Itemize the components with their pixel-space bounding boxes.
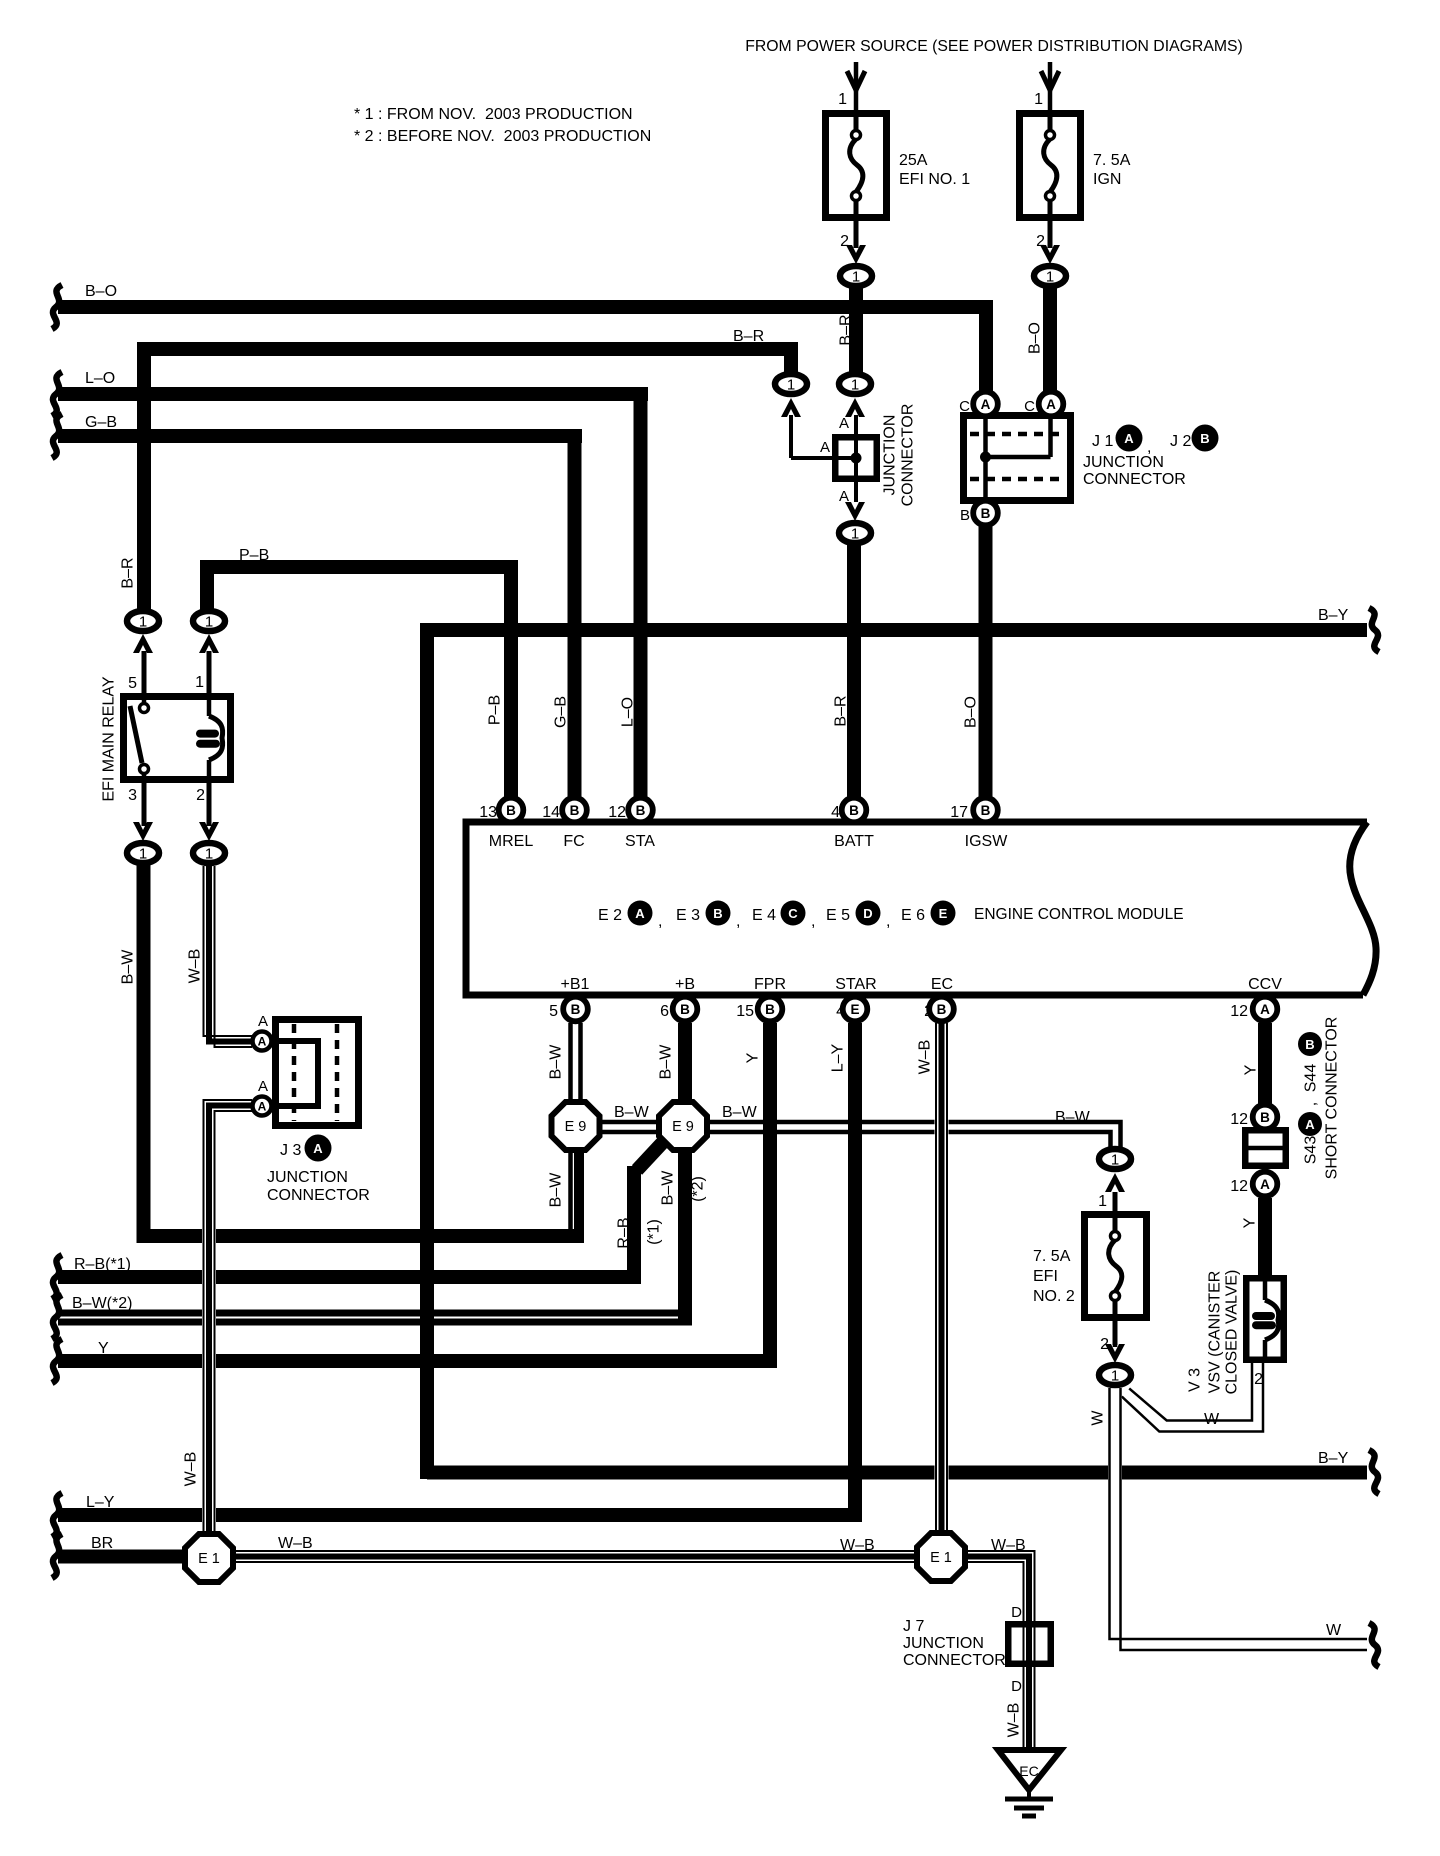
svg-text:D: D xyxy=(1011,1678,1022,1695)
svg-text:1: 1 xyxy=(851,377,859,394)
svg-text:CONNECTOR: CONNECTOR xyxy=(1083,471,1186,488)
fuse element EFI NO.1 xyxy=(854,113,859,131)
junction connector center dot xyxy=(851,453,862,464)
svg-text:R–B: R–B xyxy=(616,1217,633,1248)
svg-text:D: D xyxy=(1011,1604,1022,1621)
svg-text:1: 1 xyxy=(838,91,847,108)
fuse box 7.5A EFI NO.2 xyxy=(1085,1215,1147,1318)
svg-text:1: 1 xyxy=(852,269,860,286)
relay coil xyxy=(207,696,212,716)
svg-text:JUNCTION: JUNCTION xyxy=(882,415,899,496)
connector oval B-R junction xyxy=(775,374,807,394)
svg-text:B–W: B–W xyxy=(660,1170,677,1206)
svg-text:A: A xyxy=(635,906,645,921)
svg-text:Y: Y xyxy=(1243,1064,1260,1075)
svg-text:E 2: E 2 xyxy=(598,907,622,924)
svg-text:1: 1 xyxy=(1098,1193,1107,1210)
svg-text:J 1: J 1 xyxy=(1092,433,1113,450)
wire L-O bus to STA xyxy=(58,387,648,401)
squiggle B-W(*2) bus left end xyxy=(52,1295,62,1339)
junction connector J1/J2 internal wire vertical xyxy=(983,416,988,500)
squiggle B-O bus left end xyxy=(52,285,62,329)
pin circle B-B junction connector xyxy=(973,501,998,526)
svg-text:E 5: E 5 xyxy=(826,907,850,924)
junction connector J3 internal bus loop xyxy=(274,1041,318,1106)
svg-text:CLOSED VALVE): CLOSED VALVE) xyxy=(1224,1270,1241,1395)
wire B-W relay pin 3 to E9 no.1 xyxy=(137,864,151,1243)
pin circle IGSW 17-B xyxy=(973,798,998,823)
wire B-W below E9 no.1 (double line) xyxy=(568,1150,583,1232)
wire Y bus to FPR xyxy=(58,1354,777,1368)
svg-text:NO. 2: NO. 2 xyxy=(1033,1288,1075,1305)
svg-text:B–W: B–W xyxy=(722,1104,758,1121)
svg-text:CONNECTOR: CONNECTOR xyxy=(903,1652,1006,1669)
connector oval relay pin 1 xyxy=(193,611,225,631)
wire B-O from fuse IGN xyxy=(1043,288,1057,391)
wire relay pin 5 lead xyxy=(142,651,147,694)
svg-text:B: B xyxy=(981,506,991,521)
svg-text:D: D xyxy=(863,906,872,921)
svg-text:B–W: B–W xyxy=(614,1104,650,1121)
svg-text:JUNCTION: JUNCTION xyxy=(267,1169,348,1186)
svg-text:5: 5 xyxy=(549,1003,558,1020)
svg-text:B–W: B–W xyxy=(658,1044,675,1080)
svg-text:CONNECTOR: CONNECTOR xyxy=(900,404,917,507)
connector oval fuse EFI NO.1 pin 2 xyxy=(846,245,866,264)
svg-text:A: A xyxy=(1046,397,1056,412)
svg-text:,: , xyxy=(811,913,815,930)
squiggle L-O bus left end xyxy=(52,372,62,416)
junction E1 no.1 xyxy=(185,1534,233,1582)
svg-text:B: B xyxy=(960,507,970,524)
svg-text:B–W: B–W xyxy=(1055,1109,1091,1126)
junction E9 no.1 xyxy=(552,1102,600,1150)
svg-text:12: 12 xyxy=(1230,1003,1248,1020)
wire junction connector A through lead xyxy=(854,415,858,502)
svg-text:E: E xyxy=(850,1002,859,1017)
svg-text:A: A xyxy=(1260,1177,1270,1192)
wire B-Y upper bus xyxy=(427,623,1367,637)
svg-text:A: A xyxy=(258,1100,267,1114)
svg-text:W–B: W–B xyxy=(183,1452,200,1487)
svg-text:13: 13 xyxy=(479,804,497,821)
svg-text:V 3: V 3 xyxy=(1187,1368,1204,1392)
wire B-W from E9 no.2 to EFI NO.2 fuse (double line) xyxy=(708,1120,1118,1135)
svg-text:7. 5A: 7. 5A xyxy=(1093,152,1131,169)
svg-text:E 1: E 1 xyxy=(930,1550,952,1566)
svg-text:B–W: B–W xyxy=(548,1044,565,1080)
junction connector J1/J2 internal dot xyxy=(980,452,991,463)
svg-text:,: , xyxy=(1303,1102,1320,1106)
svg-text:,: , xyxy=(886,913,890,930)
svg-text:B–Y: B–Y xyxy=(1318,1450,1349,1467)
svg-text:EC: EC xyxy=(931,976,953,993)
svg-text:1: 1 xyxy=(205,846,213,863)
svg-text:B–Y: B–Y xyxy=(1318,607,1349,624)
svg-text:1: 1 xyxy=(195,674,204,691)
wire W from EFI NO.2 fuse down and right xyxy=(1115,1388,1367,1645)
wire Y short connector to VSV xyxy=(1258,1198,1272,1277)
relay switch contact xyxy=(142,696,147,704)
svg-text:FPR: FPR xyxy=(754,976,786,993)
svg-text:L–O: L–O xyxy=(620,697,637,727)
svg-text:E: E xyxy=(939,906,948,921)
svg-text:Y: Y xyxy=(745,1052,762,1063)
svg-text:W: W xyxy=(1090,1410,1107,1426)
junction E1 no.2 xyxy=(917,1533,965,1581)
fuse element EFI NO.2 xyxy=(1113,1192,1118,1232)
junction connector J1/J2 dashed line 2 xyxy=(970,477,1066,482)
svg-text:A: A xyxy=(820,439,830,456)
connector oval EFI NO.2 pin 1 xyxy=(1099,1149,1131,1169)
svg-text:SHORT CONNECTOR: SHORT CONNECTOR xyxy=(1324,1017,1341,1180)
svg-text:Y: Y xyxy=(1242,1217,1259,1228)
svg-text:S44: S44 xyxy=(1303,1064,1320,1093)
svg-text:A: A xyxy=(1260,1002,1270,1017)
svg-text:G–B: G–B xyxy=(85,414,117,431)
pin circle C-A junction connector right xyxy=(1039,392,1064,417)
junction connector J3 internal dashed line 1 xyxy=(292,1024,297,1121)
connector oval relay pin 2 xyxy=(199,822,219,841)
svg-text:2: 2 xyxy=(1036,233,1045,250)
pin circle 12-A short connector xyxy=(1253,1172,1278,1197)
svg-text:B: B xyxy=(981,803,991,818)
wire L-Y bus to STAR xyxy=(848,1023,862,1515)
svg-text:B–R: B–R xyxy=(838,314,855,345)
fuse box 25A EFI NO.1 xyxy=(826,114,887,218)
svg-text:7. 5A: 7. 5A xyxy=(1033,1248,1071,1265)
wire relay pin 3 lead xyxy=(142,783,147,826)
svg-text:STA: STA xyxy=(625,833,655,850)
svg-text:B: B xyxy=(849,803,859,818)
pin circle STAR 4-E xyxy=(843,997,868,1022)
squiggle B-Y upper right end xyxy=(1369,608,1379,652)
fuse element IGN xyxy=(1048,113,1053,131)
svg-text:B: B xyxy=(765,1002,775,1017)
svg-text:B: B xyxy=(636,803,646,818)
svg-text:E 6: E 6 xyxy=(901,907,925,924)
svg-text:A: A xyxy=(1124,431,1134,446)
svg-text:C: C xyxy=(788,906,798,921)
svg-text:1: 1 xyxy=(205,614,213,631)
svg-text:E 9: E 9 xyxy=(565,1119,587,1135)
svg-text:L–O: L–O xyxy=(85,370,115,387)
svg-text:EFI: EFI xyxy=(1033,1268,1058,1285)
wire W-B between E1 junctions xyxy=(233,1550,917,1564)
short connector box S43/S44 xyxy=(1245,1130,1286,1166)
svg-text:FC: FC xyxy=(563,833,584,850)
junction E9 no.2 xyxy=(659,1102,707,1150)
svg-text:25A: 25A xyxy=(899,152,928,169)
svg-text:A: A xyxy=(258,1035,267,1049)
power feed arrow to fuse IGN xyxy=(1048,62,1053,110)
svg-text:C: C xyxy=(1024,398,1035,415)
pin circle +B1 5-B xyxy=(563,997,588,1022)
svg-text:MREL: MREL xyxy=(489,833,534,850)
wire junction connector lead from B-R oval xyxy=(789,415,793,458)
svg-text:1: 1 xyxy=(851,526,859,543)
pin circle FC 14-B xyxy=(562,798,587,823)
svg-text:EFI NO. 1: EFI NO. 1 xyxy=(899,171,970,188)
svg-text:VSV (CANISTER: VSV (CANISTER xyxy=(1207,1271,1224,1394)
svg-text:+B1: +B1 xyxy=(561,976,590,993)
wire B-R horizontal to junction connector xyxy=(137,342,798,356)
wire relay pin 2 lead xyxy=(207,783,212,826)
wire B-W +B1 to E9 (double line) xyxy=(568,1023,583,1102)
wire R-B from E9 no.2 diagonal xyxy=(637,1141,664,1170)
pin circle STA 12-B xyxy=(628,798,653,823)
svg-text:B–W(*2): B–W(*2) xyxy=(72,1295,132,1312)
wire B-R down to EFI main relay xyxy=(137,343,151,610)
pin circle 12-B short connector xyxy=(1253,1105,1278,1130)
squiggle L-Y bus left end xyxy=(52,1493,62,1537)
svg-text:1: 1 xyxy=(787,377,795,394)
svg-text:W: W xyxy=(1326,1622,1342,1639)
svg-text:B–O: B–O xyxy=(85,283,117,300)
svg-text:IGSW: IGSW xyxy=(965,833,1009,850)
svg-text:6: 6 xyxy=(660,1003,669,1020)
svg-text:1: 1 xyxy=(1046,269,1054,286)
connector oval relay pin 3 xyxy=(133,822,153,841)
svg-text:4: 4 xyxy=(836,1003,845,1020)
svg-text:B–O: B–O xyxy=(1027,322,1044,354)
svg-text:2: 2 xyxy=(924,1003,933,1020)
wire B-R from fuse EFI NO.1 xyxy=(849,288,863,372)
svg-text:B: B xyxy=(1200,431,1209,446)
power feed arrow to fuse EFI NO.1 xyxy=(854,62,859,110)
svg-text:14: 14 xyxy=(542,804,560,821)
svg-text:12: 12 xyxy=(1230,1178,1248,1195)
EFI MAIN RELAY box xyxy=(124,697,231,780)
svg-text:1: 1 xyxy=(139,614,147,631)
svg-text:+B: +B xyxy=(675,976,695,993)
svg-text:1: 1 xyxy=(1111,1152,1119,1169)
svg-text:B–O: B–O xyxy=(963,696,980,728)
svg-text:A: A xyxy=(1305,1117,1315,1132)
wire relay pin 1 lead xyxy=(207,651,212,694)
junction connector J1/J2 internal wire branch xyxy=(1048,416,1053,457)
svg-text:JUNCTION: JUNCTION xyxy=(903,1635,984,1652)
svg-text:E 1: E 1 xyxy=(198,1551,220,1567)
svg-text:W–B: W–B xyxy=(991,1537,1026,1554)
svg-text:J 7: J 7 xyxy=(903,1618,924,1635)
junction connector J7 box xyxy=(1008,1624,1051,1664)
connector oval B-R to BATT xyxy=(845,502,865,521)
junction connector J1/J2 dashed line 1 xyxy=(970,432,1066,437)
svg-text:,: , xyxy=(736,913,740,930)
junction connector J3 box xyxy=(276,1020,359,1126)
svg-text:B–W: B–W xyxy=(548,1172,565,1208)
squiggle W right end xyxy=(1369,1623,1379,1667)
wire W-B from J3 to E1 ground junction xyxy=(209,1106,252,1535)
ground symbol EC xyxy=(998,1750,1061,1790)
svg-text:3: 3 xyxy=(128,787,137,804)
svg-text:STAR: STAR xyxy=(835,976,876,993)
svg-text:W–B: W–B xyxy=(840,1537,875,1554)
wire P-B MREL to relay xyxy=(504,560,518,797)
pin circle J3 A upper xyxy=(253,1032,272,1051)
svg-text:R–B(*1): R–B(*1) xyxy=(74,1256,131,1273)
pin circle BATT 4-B xyxy=(842,798,867,823)
wire B-W +B to E9 no.2 xyxy=(678,1023,692,1102)
svg-text:W: W xyxy=(1204,1411,1220,1428)
pin circle +B 6-B xyxy=(673,997,698,1022)
junction connector J1/J2 box xyxy=(964,416,1071,501)
svg-text:12: 12 xyxy=(1230,1111,1248,1128)
wire fuse IGN pin 2 to connector xyxy=(1048,221,1053,248)
pin circle J3 A lower xyxy=(253,1097,272,1116)
svg-text:B: B xyxy=(570,803,580,818)
squiggle R-B(*1) bus left end xyxy=(52,1255,62,1299)
svg-text:* 2 : BEFORE NOV. 2003 PRODUC: * 2 : BEFORE NOV. 2003 PRODUCTION xyxy=(354,128,651,145)
pin circle FPR 15-B xyxy=(758,997,783,1022)
wire EFI NO.2 pin 2 lead xyxy=(1113,1321,1118,1347)
wire fuse EFI NO.1 pin 2 to connector xyxy=(854,221,859,248)
squiggle BR bus left end xyxy=(52,1534,62,1578)
svg-text:B–R: B–R xyxy=(733,328,764,345)
svg-text:S43: S43 xyxy=(1303,1136,1320,1165)
connector oval relay pin 5 xyxy=(127,611,159,631)
squiggle G-B bus left end xyxy=(52,414,62,458)
connector oval fuse IGN pin 2 xyxy=(1040,245,1060,264)
svg-text:1: 1 xyxy=(1034,91,1043,108)
wire W-B relay pin 2 to J3 xyxy=(209,866,252,1042)
svg-text:IGN: IGN xyxy=(1093,171,1121,188)
svg-text:A: A xyxy=(258,1013,268,1030)
wire BR bus to E1 xyxy=(58,1550,190,1564)
svg-text:C: C xyxy=(959,398,970,415)
svg-text:W–B: W–B xyxy=(917,1040,934,1075)
fuse box 7.5A IGN xyxy=(1020,114,1081,218)
svg-text:P–B: P–B xyxy=(487,695,504,725)
squiggle Y bus left end xyxy=(52,1339,62,1383)
svg-text:J 3: J 3 xyxy=(280,1142,301,1159)
connector oval EFI NO.2 pin 2 xyxy=(1105,1344,1125,1363)
svg-text:W–B: W–B xyxy=(187,949,204,984)
svg-text:G–B: G–B xyxy=(553,696,570,728)
pin circle EC 2-B xyxy=(929,997,954,1022)
svg-text:B: B xyxy=(937,1002,947,1017)
svg-text:12: 12 xyxy=(608,804,626,821)
svg-text:15: 15 xyxy=(736,1003,754,1020)
svg-text:B: B xyxy=(713,906,722,921)
svg-text:(*2): (*2) xyxy=(690,1176,707,1202)
pin circle CCV 12-A xyxy=(1253,997,1278,1022)
svg-text:2: 2 xyxy=(1100,1336,1109,1353)
svg-text:CCV: CCV xyxy=(1248,976,1282,993)
svg-text:ENGINE CONTROL MODULE: ENGINE CONTROL MODULE xyxy=(974,906,1184,923)
svg-text:B: B xyxy=(571,1002,581,1017)
svg-text:4: 4 xyxy=(831,804,840,821)
svg-text:W–B: W–B xyxy=(1006,1703,1023,1738)
VSV V3 box xyxy=(1246,1278,1284,1360)
connector oval B-R to junction connector xyxy=(839,374,871,394)
svg-text:1: 1 xyxy=(1111,1368,1119,1385)
svg-text:E 9: E 9 xyxy=(672,1119,694,1135)
svg-text:5: 5 xyxy=(128,675,137,692)
svg-text:B: B xyxy=(506,803,516,818)
svg-text:A: A xyxy=(839,488,849,505)
svg-text:B: B xyxy=(1305,1037,1314,1052)
squiggle B-Y lower right end xyxy=(1369,1450,1379,1494)
pin circle C-A junction connector left xyxy=(973,392,998,417)
svg-text:FROM POWER SOURCE (SEE POWER D: FROM POWER SOURCE (SEE POWER DISTRIBUTIO… xyxy=(745,38,1243,55)
svg-text:B–W: B–W xyxy=(120,949,137,985)
junction connector J3 internal dashed line 2 xyxy=(335,1024,340,1121)
svg-text:(*1): (*1) xyxy=(646,1219,663,1245)
svg-text:Y: Y xyxy=(98,1340,109,1357)
svg-text:J 2: J 2 xyxy=(1170,433,1191,450)
svg-text:A: A xyxy=(839,415,849,432)
ECM box (ENGINE CONTROL MODULE) xyxy=(466,822,1367,995)
wire G-B bus to FC xyxy=(58,429,582,443)
svg-text:B–R: B–R xyxy=(833,695,850,726)
wire W-B EC pin to E1 xyxy=(935,1023,949,1534)
svg-text:17: 17 xyxy=(950,804,968,821)
wire B-R to BATT xyxy=(847,545,861,797)
svg-text:B: B xyxy=(1260,1110,1270,1125)
svg-text:B–R: B–R xyxy=(120,557,137,588)
svg-text:A: A xyxy=(981,397,991,412)
VSV coil xyxy=(1263,1278,1268,1300)
wire B-W from E9 no.2 to B-W(*2) bus xyxy=(58,1310,692,1317)
svg-text:E 4: E 4 xyxy=(752,907,776,924)
svg-text:EFI MAIN RELAY: EFI MAIN RELAY xyxy=(101,676,118,801)
wire W-B from E1 to J7 and ground xyxy=(965,1557,1029,1751)
svg-text:EC: EC xyxy=(1019,1763,1038,1779)
svg-text:A: A xyxy=(313,1141,323,1156)
svg-text:JUNCTION: JUNCTION xyxy=(1083,454,1164,471)
svg-text:2: 2 xyxy=(840,233,849,250)
wire B-O bus xyxy=(58,300,993,314)
svg-text:* 1 : FROM NOV. 2003 PRODUCTI: * 1 : FROM NOV. 2003 PRODUCTION xyxy=(354,106,633,123)
svg-text:BR: BR xyxy=(91,1535,113,1552)
svg-text:P–B: P–B xyxy=(239,547,269,564)
svg-text:,: , xyxy=(658,913,662,930)
svg-text:W–B: W–B xyxy=(278,1535,313,1552)
svg-text:1: 1 xyxy=(139,846,147,863)
svg-text:BATT: BATT xyxy=(834,833,874,850)
svg-text:CONNECTOR: CONNECTOR xyxy=(267,1187,370,1204)
svg-text:B: B xyxy=(680,1002,690,1017)
wire Y CCV to short connector xyxy=(1258,1023,1272,1104)
svg-text:E 3: E 3 xyxy=(676,907,700,924)
svg-text:L–Y: L–Y xyxy=(830,1043,847,1072)
wire W from VSV pin 2 xyxy=(1126,1363,1258,1426)
svg-text:A: A xyxy=(258,1078,268,1095)
wire B-W between E9 junctions (double line) xyxy=(600,1120,658,1135)
svg-text:2: 2 xyxy=(196,787,205,804)
junction connector (B-R) box xyxy=(835,437,877,479)
svg-text:2: 2 xyxy=(1254,1371,1263,1388)
wire B-O to IGSW xyxy=(979,526,993,797)
pin circle MREL 13-B xyxy=(499,798,524,823)
svg-text:L–Y: L–Y xyxy=(86,1494,115,1511)
